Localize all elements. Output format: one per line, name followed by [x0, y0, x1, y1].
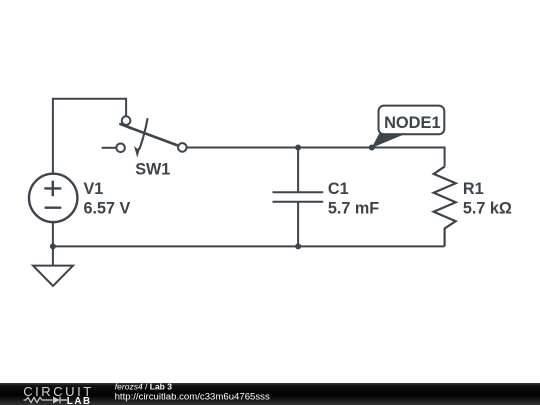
svg-text:NODE1: NODE1 [384, 114, 440, 132]
svg-text:ferozs4 / Lab 3: ferozs4 / Lab 3 [115, 382, 172, 392]
svg-text:R1: R1 [463, 180, 484, 198]
svg-text:SW1: SW1 [135, 161, 170, 179]
svg-text:C1: C1 [328, 180, 349, 198]
svg-text:LAB: LAB [67, 396, 92, 405]
svg-text:V1: V1 [84, 180, 104, 198]
svg-text:6.57 V: 6.57 V [84, 199, 131, 217]
svg-text:http://circuitlab.com/c33m6u47: http://circuitlab.com/c33m6u4765sss [115, 391, 270, 402]
svg-text:5.7 kΩ: 5.7 kΩ [463, 199, 512, 217]
svg-text:5.7 mF: 5.7 mF [328, 199, 379, 217]
